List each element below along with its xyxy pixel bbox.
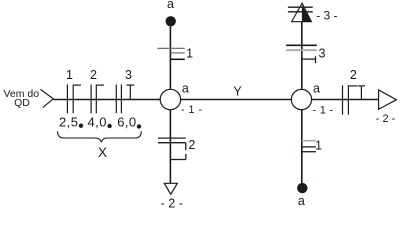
svg-text:1: 1	[186, 47, 193, 61]
svg-text:2: 2	[350, 68, 357, 82]
switch a (top, filled dot)	[166, 16, 176, 26]
svg-text:1: 1	[315, 139, 322, 153]
svg-text:QD: QD	[14, 97, 30, 109]
svg-text:- 2 -: - 2 -	[376, 113, 396, 125]
conduit marks group 2 (phase + return ticks)	[91, 85, 104, 114]
svg-text:3: 3	[319, 47, 326, 61]
svg-text:2,5: 2,5	[59, 115, 78, 130]
svg-text:- 1 -: - 1 -	[181, 104, 203, 116]
switch a (bottom, filled dot)	[297, 183, 307, 193]
wire: vertical branch through lamp point 2	[301, 22, 303, 184]
svg-text:6,0: 6,0	[117, 115, 136, 130]
lamp point circle 1 (ceiling light, node a / circuit 1)	[160, 89, 180, 109]
wire: main horizontal feeder line	[53, 99, 378, 101]
svg-text:a: a	[313, 82, 320, 96]
svg-text:X: X	[98, 145, 107, 160]
svg-text:2: 2	[90, 68, 97, 82]
svg-text:a: a	[167, 0, 174, 11]
svg-text:1: 1	[66, 68, 73, 82]
conductor marks circuit 2 (bottom branch of lamp 1)	[158, 138, 186, 159]
conduit marks group 3 (two phases + neutral T tick)	[116, 85, 134, 114]
svg-text:2: 2	[188, 138, 195, 152]
svg-text:a: a	[298, 194, 305, 208]
chevron: feeder entry "Vem do QD"	[41, 89, 54, 107]
svg-text:Y: Y	[233, 85, 242, 99]
svg-text:- 1 -: - 1 -	[312, 105, 333, 117]
conduit marks on right outlet branch (circuit 2)	[343, 85, 366, 114]
svg-text:4,0: 4,0	[88, 115, 107, 130]
wall lamp symbol (arandela, circuit 3)	[288, 3, 313, 22]
wire: vertical branch through lamp point 1	[169, 27, 171, 184]
outlet triangle (right, circuit 2)	[379, 90, 397, 109]
svg-text:- 3 -: - 3 -	[316, 8, 337, 22]
svg-text:3: 3	[125, 68, 132, 82]
conductor marks circuit 1 (bottom branch of lamp 2)	[301, 141, 316, 152]
lamp point circle 2 (ceiling light, node a / circuit 1)	[291, 89, 311, 109]
svg-text:a: a	[182, 82, 189, 96]
outlet triangle (bottom of lamp 1, circuit 2)	[164, 183, 177, 194]
brace X under wire gauges	[58, 131, 142, 142]
conductor marks circuit 3 (top branch of lamp 2)	[286, 45, 317, 63]
conductor marks circuit 1 (top branch of lamp 1)	[157, 48, 185, 59]
conduit marks group 1 (phase + return ticks)	[67, 85, 81, 114]
svg-text:- 2 -: - 2 -	[161, 196, 183, 210]
